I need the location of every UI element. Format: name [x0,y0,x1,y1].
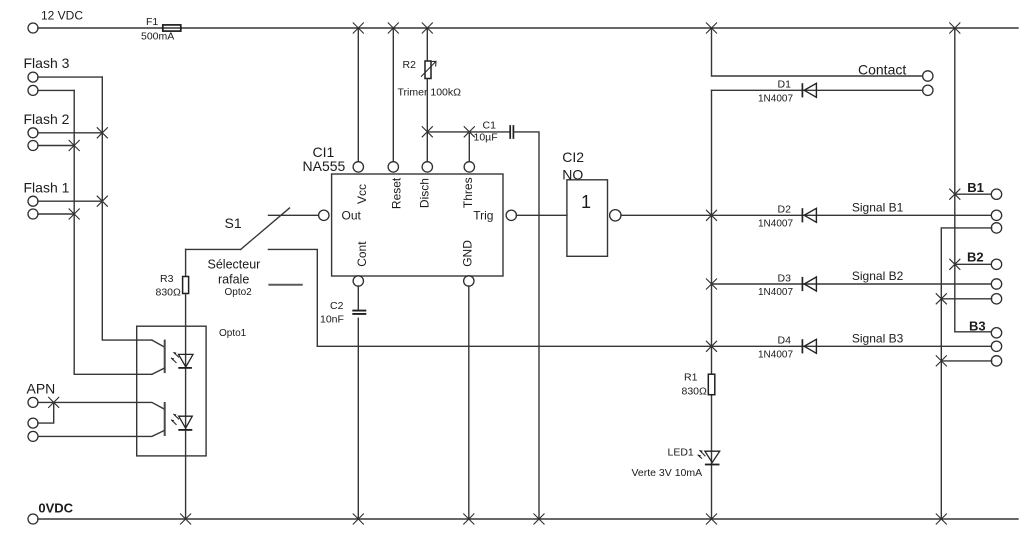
wire +12V rail to right rail [955,28,992,332]
wire Disch R2 to pin [426,79,428,162]
node APN pin 3 [28,431,38,441]
svg-text:830Ω: 830Ω [682,386,708,398]
wire B2 row 1 [955,263,992,265]
svg-text:Disch: Disch [418,178,432,208]
wire C2 to 0V rail [357,318,359,519]
wire Flash3 pin1 to bus A [38,76,103,78]
junction diode bus at CI2 out row [706,210,717,221]
svg-text:0VDC: 0VDC [38,501,73,516]
node B1 pin 1 [991,189,1001,199]
node Flash 3 pin 2 [28,85,38,95]
svg-text:R1: R1 [684,372,698,384]
junction GND to 0V rail [463,514,474,525]
svg-text:CI2: CI2 [562,149,584,165]
pin GND circle [464,276,474,286]
svg-text:Verte 3V 10mA: Verte 3V 10mA [632,467,703,479]
wire D4 row Signal B3 [317,345,991,347]
svg-text:NA555: NA555 [303,158,346,174]
svg-text:B1: B1 [967,180,984,195]
wire Flash2 pin1 to bus A [38,132,103,134]
node Contact pin 2 [923,85,933,95]
svg-text:1N4007: 1N4007 [758,349,793,360]
svg-text:1: 1 [581,192,591,212]
node B2 pin 3 [991,294,1001,304]
svg-text:Opto2: Opto2 [225,287,253,298]
svg-text:500mA: 500mA [141,31,174,43]
pin Trig circle [506,210,516,220]
node Flash 1 pin 2 [28,209,38,219]
optocoupler Opto1 box [137,326,206,456]
node B3 pin 3 [991,356,1001,366]
svg-text:LED1: LED1 [668,447,694,459]
switch S1 spare contact stub Opto2 [268,284,302,286]
svg-text:GND: GND [461,240,475,267]
pin Vcc circle [353,162,363,172]
switch S1 pole wire [186,248,241,250]
wire B1 pin3 to return bus [941,228,991,519]
wire bottom 0V rail [38,518,1018,520]
junction Flash1 pin1 bus A [97,196,108,207]
junction diode bus at D3 row [706,279,717,290]
diode opto channel 2 LED [179,416,193,428]
svg-text:12 VDC: 12 VDC [41,9,83,23]
node B2 pin 1 [991,259,1001,269]
svg-text:APN: APN [27,381,56,397]
node Flash 2 pin 1 [28,128,38,138]
diode D1 [804,83,816,97]
node B1 pin 2 [991,210,1001,220]
junction Reset rail [388,23,399,34]
wire Flash1 pin1 to bus A [38,200,103,202]
junction diode bus at D4 row [706,341,717,352]
LED LED1 [705,451,720,462]
wire Vcc from rail [357,28,359,161]
diode D2 [804,208,816,222]
junction Flash2 pin1 bus A [97,127,108,138]
op-amp CI1 NA555 box [332,174,503,276]
svg-text:Cont: Cont [355,241,369,267]
node APN pin 2 [28,418,38,428]
junction +12V rail at contact drop [706,23,717,34]
wire S1 upper contact to Out [269,214,319,216]
wire APN pin2 link [38,402,54,423]
wire +12V drop to Contact [712,28,923,76]
node 12VDC terminal [28,23,38,33]
svg-text:Reset: Reset [390,177,404,209]
resistor R2 trimmer body [425,61,431,79]
node B3 pin 1 [991,328,1001,338]
wire B2 pin3 to return bus [941,298,991,300]
junction return bus at 0V rail [936,514,947,525]
wire Disch from rail [426,28,428,61]
resistor R3 [185,249,187,276]
node Flash 2 pin 2 [28,141,38,151]
wire Trig to CI2 [516,214,567,216]
node B1 pin 3 [991,223,1001,233]
svg-text:Signal B3: Signal B3 [852,332,904,346]
svg-text:D4: D4 [778,335,792,347]
wire B3 pin3 to return bus [941,360,991,362]
svg-text:R3: R3 [160,273,174,285]
relay CI2 box [567,180,608,256]
pin Cont circle [353,276,363,286]
node B2 pin 2 [991,279,1001,289]
svg-text:Out: Out [342,209,362,223]
junction return bus at B2 pin3 [936,293,947,304]
wire Flash3 pin2 to bus B [38,89,74,91]
svg-text:Signal B1: Signal B1 [852,201,904,215]
wire C1 to Trig net corner [514,132,539,519]
svg-text:10nF: 10nF [320,313,344,325]
wire GND to 0V rail [468,286,470,519]
svg-text:S1: S1 [225,215,242,231]
svg-text:Opto1: Opto1 [219,328,247,339]
resistor R1 [708,374,715,395]
capacitor C1 [510,125,513,139]
svg-text:Trimer 100kΩ: Trimer 100kΩ [398,86,462,98]
capacitor C2 [352,311,366,314]
wire D3 row Signal B2 [712,283,992,285]
wire CI2 output to diode bus [621,214,712,216]
svg-text:1N4007: 1N4007 [758,94,793,105]
fuse F1 [163,25,181,31]
pin Reset circle [388,162,398,172]
opto LED 2 light arrows [171,414,179,425]
junction APN pins 1-2 [48,397,59,408]
svg-text:1N4007: 1N4007 [758,218,793,229]
svg-text:R2: R2 [403,59,417,71]
svg-text:Trig: Trig [473,209,493,223]
LED1 light arrows [698,450,706,459]
wire Flash2 pin2 to bus B [38,145,74,147]
junction Vcc rail [353,23,364,34]
svg-text:Flash 2: Flash 2 [24,111,70,127]
diode opto channel 1 LED [179,354,194,367]
svg-text:B3: B3 [969,319,986,334]
svg-text:NO: NO [562,167,583,183]
svg-text:Contact: Contact [858,62,906,78]
node 0VDC terminal [28,514,38,524]
wire bus B vertical to opto emitter 1 [74,90,152,374]
wire Thres vertical [468,132,470,161]
resistor R2 trimmer arrow [421,61,436,77]
wire APN pin1 [38,401,54,403]
junction C2 to 0V rail [353,514,364,525]
svg-text:Sélecteur: Sélecteur [208,258,261,272]
svg-text:C2: C2 [330,300,344,312]
wire S1 lower contact to Signal B3 net [268,249,317,346]
junction Disch / C1 wire [422,126,433,137]
transistor opto channel 2 phototransistor [54,402,165,409]
wire Flash1 pin2 to bus B [38,213,74,215]
junction right rail at B1 [949,189,960,200]
svg-text:C1: C1 [483,119,497,131]
svg-text:830Ω: 830Ω [156,286,182,298]
junction Trig net to 0V rail [534,514,545,525]
switch S1 blade [241,208,290,249]
node APN pin 1 [28,397,38,407]
opto LED 1 light arrows [171,352,179,363]
svg-text:B2: B2 [967,249,984,264]
svg-text:10µF: 10µF [474,132,498,144]
junction Flash2 pin2 bus B [69,140,80,151]
svg-text:Vcc: Vcc [355,184,369,204]
svg-text:D3: D3 [778,272,792,284]
node B3 pin 2 [991,341,1001,351]
svg-text:1N4007: 1N4007 [758,287,793,298]
svg-text:Thres: Thres [461,177,475,208]
junction +12V rail right drop [949,23,960,34]
junction right rail at B2 [949,259,960,270]
wire D1 row [712,89,923,91]
node Contact pin 1 [923,71,933,81]
pin Thres circle [464,162,474,172]
junction return bus at B3 pin3 [936,355,947,366]
svg-text:rafale: rafale [218,272,249,286]
svg-text:F1: F1 [146,16,158,28]
wire diode bus vertical [711,90,713,519]
pin Out circle [319,210,329,220]
svg-text:Flash 1: Flash 1 [24,179,70,195]
pin CI2 output circle [610,210,621,221]
wire top +12V rail [38,27,1018,29]
transistor opto channel 1 phototransistor [152,340,164,347]
junction Thres tap [464,126,475,137]
svg-text:D1: D1 [778,79,792,91]
svg-text:D2: D2 [778,204,792,216]
node Flash 1 pin 1 [28,196,38,206]
junction opto to 0VDC [180,514,191,525]
junction Disch rail [422,23,433,34]
wire Reset from rail [392,28,394,161]
node Flash 3 pin 1 [28,72,38,82]
svg-text:Flash 3: Flash 3 [24,55,70,71]
wire C1 horizontal [427,131,509,133]
wire D2 row Signal B1 [712,214,992,216]
wire Cont to C2 [357,286,359,310]
diode D4 [804,339,816,353]
diode D3 [804,277,816,291]
svg-text:Signal B2: Signal B2 [852,269,904,283]
junction Flash1 pin2 bus B [69,209,80,220]
pin Disch circle [422,162,432,172]
wire bus A vertical to opto collector 1 [102,77,152,340]
wire B1 row 1 [955,193,992,195]
junction diode bus at 0V rail [706,514,717,525]
